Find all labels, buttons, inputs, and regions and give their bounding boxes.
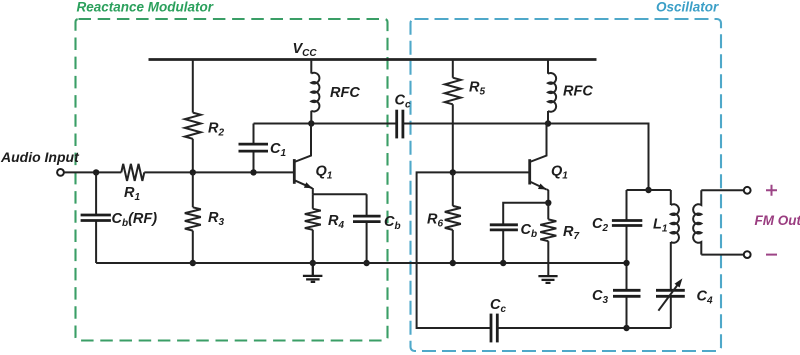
node R4 bottom junction xyxy=(310,260,316,266)
wire tank right branch xyxy=(627,190,671,328)
inductor RFC left xyxy=(311,73,319,112)
FM Out label xyxy=(755,213,800,228)
Vcc rail wire xyxy=(149,58,597,61)
node Cb osc bottom junction xyxy=(500,260,506,266)
wire R6 branch xyxy=(452,172,454,263)
node bottom tank junction xyxy=(623,325,629,331)
wire emitter node left xyxy=(313,193,367,195)
wire R3 branch xyxy=(192,172,194,263)
reactance modulator title xyxy=(77,0,214,15)
wire Cb left branch xyxy=(366,194,368,263)
R1 label xyxy=(124,185,140,203)
wire Cb(RF) branch xyxy=(95,172,97,263)
node RFC left junction xyxy=(308,120,314,126)
wire collector feed line left xyxy=(254,123,397,125)
node A junction (input) xyxy=(93,169,99,175)
Vcc label xyxy=(293,41,318,59)
resistor R3 xyxy=(185,207,201,230)
Cb(RF) label xyxy=(112,211,158,229)
wire bottom ground bus xyxy=(96,262,626,264)
node emitter junction right xyxy=(545,200,551,206)
node C1 base junction xyxy=(250,169,256,175)
Cc bottom label xyxy=(490,297,506,315)
ground (left) xyxy=(303,263,323,282)
wire collector feed line right xyxy=(403,124,649,191)
node RFC right junction xyxy=(545,120,551,126)
node tank feed junction xyxy=(645,187,651,193)
capacitor Cb osc xyxy=(490,225,518,230)
C4 label xyxy=(697,289,713,307)
R6 label xyxy=(427,212,443,230)
Audio Input label xyxy=(0,149,80,165)
wire bottom feedback line right xyxy=(497,327,626,329)
Q1 left label xyxy=(316,164,333,182)
R4 label xyxy=(328,213,344,231)
resistor R5 xyxy=(445,78,461,105)
Cb osc label xyxy=(521,222,538,240)
R3 label xyxy=(208,210,224,228)
wire Cb osc branch xyxy=(503,203,548,263)
R2 label xyxy=(208,121,224,139)
wire input to base of Q1 (left) xyxy=(64,171,294,173)
transformer secondary winding xyxy=(693,190,744,254)
wire R7 branch xyxy=(547,203,549,276)
resistor R6 xyxy=(445,206,461,230)
transistor Q1 left xyxy=(294,124,313,195)
L1 label xyxy=(653,217,668,235)
node R2/R3/base junction xyxy=(190,169,196,175)
FM Out - terminal xyxy=(744,251,751,258)
wire C1 branch xyxy=(253,124,255,173)
node R5/R6 junction xyxy=(450,169,456,175)
C3 label xyxy=(592,288,608,306)
C2 label xyxy=(592,216,608,234)
svg-text:Reactance Modulator: Reactance Modulator xyxy=(77,0,214,15)
input terminal xyxy=(57,169,64,176)
oscillator title xyxy=(656,0,719,15)
svg-text:RFC: RFC xyxy=(330,85,360,101)
inductor L1 xyxy=(671,204,679,243)
node R3 bottom junction xyxy=(190,260,196,266)
capacitor C4 (variable) xyxy=(656,278,685,310)
wire tank left branch xyxy=(626,190,628,328)
R5 label xyxy=(469,80,485,98)
node tank mid junction xyxy=(623,260,629,266)
wire tank top xyxy=(627,189,671,191)
resistor R2 xyxy=(185,113,201,139)
node Cb left bottom junction xyxy=(363,260,369,266)
resistor R4 xyxy=(305,209,321,230)
capacitor C1 xyxy=(239,144,269,151)
wire RFC left stubs xyxy=(310,60,312,124)
ground (right) xyxy=(538,276,557,283)
capacitor Cc top xyxy=(397,110,403,139)
plus sign xyxy=(766,185,777,196)
RFC right label xyxy=(563,84,593,100)
resistor R7 xyxy=(540,219,556,241)
capacitor C2 xyxy=(612,221,642,226)
node R6 bottom junction xyxy=(450,260,456,266)
wire R5 branch xyxy=(452,60,454,173)
C1 label xyxy=(270,141,286,159)
capacitor Cc bottom xyxy=(491,314,497,343)
oscillator dashed box xyxy=(411,19,722,351)
minus sign xyxy=(766,254,777,256)
capacitor Cb left xyxy=(353,216,381,222)
Cb left label xyxy=(384,214,401,232)
FM Out + terminal xyxy=(744,187,751,194)
svg-text:FM Out: FM Out xyxy=(755,213,800,228)
Q1 right label xyxy=(551,164,568,182)
inductor RFC right xyxy=(548,73,556,112)
wire oscillator base feedback xyxy=(417,172,530,328)
wire R2 branch from rail xyxy=(192,60,194,173)
svg-text:Cb(RF): Cb(RF) xyxy=(112,211,158,229)
R7 label xyxy=(563,224,579,242)
wire R4 branch xyxy=(312,194,314,263)
wire RFC right stubs xyxy=(547,60,549,124)
svg-text:RFC: RFC xyxy=(563,84,593,100)
resistor R1 xyxy=(121,164,144,181)
Cc top label xyxy=(395,93,411,111)
capacitor Cb(RF) xyxy=(81,215,111,221)
reactance modulator dashed box xyxy=(76,19,388,341)
transistor Q1 right xyxy=(530,124,549,203)
svg-text:Oscillator: Oscillator xyxy=(656,0,719,15)
RFC left label xyxy=(330,85,360,101)
svg-text:Audio Input: Audio Input xyxy=(0,149,80,165)
capacitor C3 xyxy=(613,290,641,296)
